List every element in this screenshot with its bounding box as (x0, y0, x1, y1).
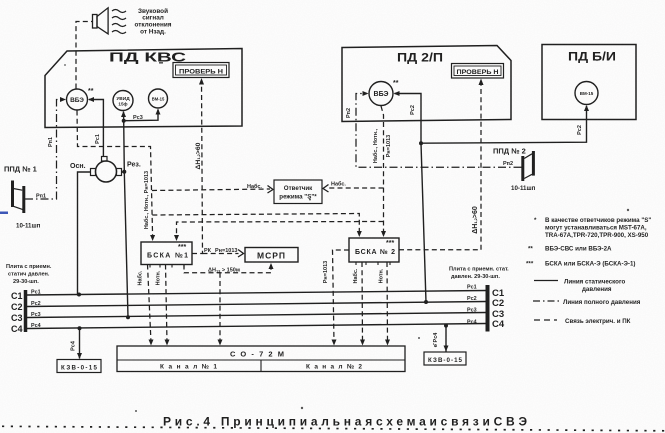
arrow into VBE2 left (363, 91, 369, 96)
dashed BSKA2 to PROVER N2 (399, 81, 481, 250)
valve left port (91, 169, 96, 176)
wire C4 to KZV left (79, 328, 81, 358)
block PD KVS outline (45, 49, 242, 128)
bus line C4 (27, 324, 486, 329)
arrow into KZV left top (77, 353, 82, 359)
arrow into PROVER N1 bottom (199, 78, 204, 85)
arrow into BSKA1 top right (174, 235, 179, 241)
dashed cross VBE1 to BSKA2 (152, 214, 359, 235)
arrow into VBE1 left (60, 97, 66, 102)
box PROVER N 2 (double border) (452, 64, 504, 79)
wire UVID down to C3 (124, 112, 129, 318)
box KZV-0-15 right (424, 352, 466, 365)
valve switch body (96, 161, 117, 182)
arrow into VBE1 right (88, 97, 94, 102)
BSKA1 pins (150, 265, 184, 268)
wire Rs2 VBE2 to VM2 and C2 (395, 94, 587, 144)
arrow into SO-72M x362 (360, 340, 365, 346)
pitot PPD2 dash-dot line (356, 94, 522, 168)
arrow into PROVER N2 bottom (479, 79, 484, 86)
dashed branch to SO-72M ch1 (219, 273, 221, 343)
box SO-72M outline (117, 346, 405, 372)
arrow into SO-72M x151 (149, 340, 154, 346)
dashed RK line to MSRP (203, 253, 239, 255)
legend sample solid (534, 280, 558, 282)
arrow into BSKA2 top right (381, 231, 386, 237)
legend sample dash-dot (533, 300, 559, 302)
SO-72M divider vertical (260, 360, 262, 372)
box MSRP (245, 248, 298, 263)
wire VBE2 junction down to C2 (421, 143, 426, 302)
indicator UVID circle (113, 91, 133, 111)
arrow into UVID bottom (121, 111, 126, 117)
dashed speaker link (76, 22, 93, 89)
arrow into VM2 bottom (584, 105, 589, 111)
arrow into SO-72M x387 (385, 340, 390, 346)
box Otvetchik rezhima S (274, 180, 322, 204)
wire Rs1 VBE1 to valve nub (89, 100, 103, 157)
box KZV-0-15 left (57, 360, 101, 373)
bus line C1 (27, 291, 486, 296)
pitot probe PPD1 symbol (13, 181, 24, 214)
scan noise overlay (0, 0, 1, 1)
block PD 2/P outline (342, 46, 511, 122)
dashed BSKA2 Rn1013 down (333, 250, 350, 343)
block PD B/I outline (542, 45, 636, 120)
box BSKA no.1 (141, 242, 192, 265)
speaker horn (97, 8, 108, 34)
arrow into SO-72M x220 (218, 340, 223, 346)
wire C4 to KZV right (445, 326, 447, 352)
arrow into SO-72M x167 (165, 340, 170, 346)
wire Osn line valve to C1 (78, 172, 91, 295)
junction dots (77, 293, 81, 297)
scan specks (64, 59, 629, 412)
arrow into BSKA1 top left (150, 235, 155, 241)
speaker box (93, 15, 98, 29)
SO-72M divider horizontal (117, 359, 405, 361)
dashed BSKA2 Notn down (386, 262, 389, 343)
arrow into KZV right top (444, 346, 449, 352)
wire UVID line to VM1 (124, 110, 158, 121)
dashed BSKA1 Notn down (166, 265, 168, 343)
arrow into MSRP bottom (269, 263, 274, 269)
dashed VBE2 to BSKA2 (381, 106, 384, 234)
indicator VM-15 no.1 circle (149, 89, 168, 108)
arrow into MSRP left (238, 250, 244, 258)
arrow into VM1 bottom (156, 109, 161, 115)
dashed VBE1 to BSKA1 (77, 111, 153, 237)
valve top nub (102, 157, 108, 162)
arrow into SO-72M x334 (332, 340, 337, 346)
static plate left bar (24, 290, 28, 332)
dashed stub to Otvetchik right (327, 187, 384, 189)
dashed stub to Otvetchik left (152, 189, 270, 191)
indicator VBE1 circle (67, 89, 88, 110)
static plate right bar (486, 285, 490, 332)
blue texts (135, 7, 652, 325)
box PROVER N 1 (double border) (173, 63, 229, 78)
dashed BSKA1 to PROVER N1 and MSRP (192, 81, 203, 254)
arrow into Otvetchik left (268, 186, 274, 194)
bus line C3 (27, 313, 486, 318)
blue edge mark (0, 212, 8, 215)
arrow into BSKA2 top left (357, 231, 362, 237)
arrow into Otvetchik right (323, 185, 329, 193)
box BSKA no.2 (349, 238, 399, 262)
arrow into VBE2 right (394, 91, 400, 96)
indicator VM-15 no.2 circle (575, 82, 598, 105)
pitot PPD1 dash-dot line (25, 100, 64, 200)
valve right port (117, 169, 122, 176)
dashed cross VBE2 to BSKA1 (177, 222, 384, 234)
indicator VBE2 circle (369, 82, 393, 106)
bottom perforation dots (2, 426, 665, 431)
BSKA2 pins (356, 262, 390, 265)
dashed BSKA1 Nabs down (148, 265, 152, 343)
bus line C2 (27, 302, 486, 307)
legend sample dashed (534, 319, 557, 321)
speaker waves (112, 10, 126, 34)
arrowheads (60, 78, 589, 359)
dashed BSKA1 dH loop to MSRP (184, 265, 271, 273)
dashed BSKA2 Nabs down (361, 262, 364, 343)
pitot probe PPD2 symbol (523, 151, 534, 181)
wire valve right port to UVID line (122, 171, 125, 173)
